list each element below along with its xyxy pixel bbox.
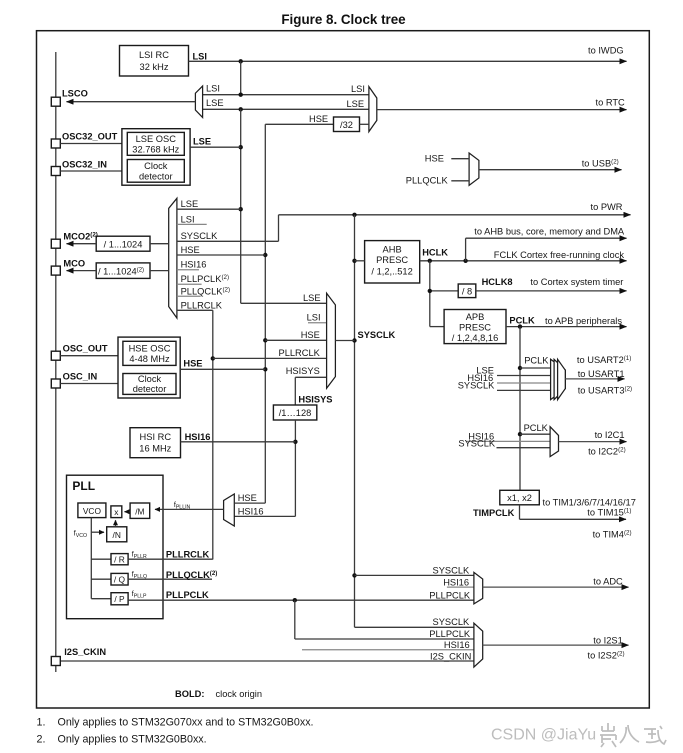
svg-text:HSI16: HSI16 [444,640,470,650]
svg-text:Clock: Clock [138,374,162,384]
divider /1...1024 MCO [96,263,150,279]
svg-text:PLLRCLK: PLLRCLK [279,348,321,358]
svg-text:4-48 MHz: 4-48 MHz [129,354,170,364]
wire MCO-PLLRCLK in [177,309,213,311]
wire HCLK drop [429,261,431,327]
wire LSI row [203,94,369,96]
mux MCO [169,198,177,318]
wire to AHB bus [465,238,467,261]
wire ADC SYSCLK in [355,574,474,576]
svg-text:LSE: LSE [347,99,365,109]
svg-text:to TIM1/3/6/7/14/16/17: to TIM1/3/6/7/14/16/17 [543,497,636,507]
box /M [130,503,150,518]
svg-text:SYSCLK: SYSCLK [458,438,495,448]
mux ADC [474,572,483,604]
pad OSC32_OUT [51,139,60,148]
svg-text:to I2C1: to I2C1 [595,430,625,440]
svg-text:HSISYS: HSISYS [286,366,320,376]
wire HSI16 out [181,441,296,443]
box clock detector (LSE) [127,160,184,183]
svg-text:16 MHz: 16 MHz [139,444,171,454]
wire TIMPCLK [519,505,521,520]
svg-text:/ 8: / 8 [462,286,472,296]
wire to PWR [279,214,631,216]
wire LSI to IWDG [189,60,627,62]
svg-text:OSC_OUT: OSC_OUT [63,344,108,354]
wire MCO-LSI stub [177,223,207,225]
wire MCO-PLLPCLK stub [177,283,202,285]
wire PLLRCLK out [128,558,213,560]
wire /N up to x [115,520,117,527]
svg-text:/ Q: / Q [114,575,126,585]
wire PLLPCLK drop to I2S [294,600,296,639]
svg-text:HSISYS: HSISYS [298,394,332,404]
svg-text:LSI: LSI [193,52,207,62]
wire to RTC [377,109,627,111]
box VCO [78,503,106,518]
pad MCO [51,266,60,275]
svg-text:LSCO: LSCO [62,89,88,99]
svg-text:2.: 2. [37,734,46,746]
svg-text:OSC32_OUT: OSC32_OUT [62,132,118,142]
wire USART PCLK in [520,367,552,369]
svg-text:LSI: LSI [307,312,321,322]
svg-text:PRESC: PRESC [376,255,408,265]
wire USART HSI16 stub [497,382,552,384]
wire to ADC [483,586,629,588]
divider /1...128 [273,405,316,420]
wire LSE row [203,108,369,110]
mux LSCO [195,86,202,117]
svg-text:PLLPCLK: PLLPCLK [429,629,471,639]
svg-text:PLLRCLK: PLLRCLK [166,550,210,560]
svg-text:LSE: LSE [181,199,199,209]
wire SYSCLK rail [354,215,356,628]
svg-text:LSE: LSE [303,293,321,303]
box multiplier x [111,506,122,518]
svg-text:HSE: HSE [238,493,257,503]
box LSE OSC outer [122,129,190,186]
svg-text:1.: 1. [37,717,46,729]
pad I2S_CKIN [51,657,60,666]
svg-text:TIMPCLK: TIMPCLK [473,508,515,518]
wire HSE out [180,368,265,370]
svg-text:to I2S1: to I2S1 [593,635,622,645]
svg-text:SYSCLK: SYSCLK [358,330,396,340]
mux USART (x3 stack) [551,359,566,399]
svg-text:/32: /32 [340,120,353,130]
svg-text:x1, x2: x1, x2 [507,493,532,503]
wire I2S SYSCLK in [355,626,474,628]
wire I2S HSI16 [302,649,474,651]
svg-text:PRESC: PRESC [459,322,491,332]
wire fPLLIN [155,508,224,510]
wire LSCO arrow [67,101,196,103]
mux I2S [474,623,483,667]
multiplier x1,x2 [500,490,540,505]
svg-text:SYSCLK: SYSCLK [433,565,470,575]
svg-text:LSI: LSI [351,84,365,94]
wire PLLQCLK stub [128,578,212,580]
wire HSISYS link [294,420,296,516]
svg-text:SYSCLK: SYSCLK [181,231,218,241]
svg-text:HCLK8: HCLK8 [482,277,513,287]
pad LSCO [51,97,60,106]
mux USB [469,153,479,185]
svg-text:to USART1: to USART1 [578,369,625,379]
svg-text:AHB: AHB [383,245,402,255]
wire PCLK [506,326,627,328]
svg-text:to PWR: to PWR [591,202,623,212]
svg-text:I2S_CKIN: I2S_CKIN [430,652,471,662]
wire MCO-HSE in [177,254,265,256]
svg-text:HCLK: HCLK [422,248,448,258]
box HSE OSC outer [118,337,180,398]
svg-text:HSE: HSE [309,114,328,124]
wire to I2C [559,441,627,443]
svg-text:PCLK: PCLK [524,423,549,433]
wire LSI drop [240,61,242,94]
svg-text:PLLPCLK: PLLPCLK [166,590,209,600]
wire USART SYSCLK stub [497,389,552,391]
junction LSI [239,59,243,63]
svg-text:Only applies to STM32G070xx an: Only applies to STM32G070xx and to STM32… [58,717,314,729]
svg-text:HSE: HSE [181,245,200,255]
pad MCO2 [51,239,60,248]
svg-text:LSI RC: LSI RC [139,50,169,60]
svg-text:CSDN @JiaYu: CSDN @JiaYu [491,727,596,744]
wire MCO-HSI16 stub [177,269,199,271]
svg-text:LSE: LSE [193,137,211,147]
svg-text:/ P: / P [114,594,125,604]
svg-text:/ 1,2,..512: / 1,2,..512 [371,267,412,277]
wire HSE rail [264,124,266,503]
svg-text:detector: detector [133,384,167,394]
wire I2C SYSCLK stub [497,447,551,449]
divider /8 [430,290,458,292]
wire USART LSE stub [497,375,552,377]
svg-text:PCLK: PCLK [509,315,535,325]
svg-text:HSI16: HSI16 [238,507,264,517]
svg-text:HSE: HSE [301,330,320,340]
watermark CJK glyphs [600,723,666,747]
svg-text:OSC32_IN: OSC32_IN [62,159,107,169]
svg-text:to USART2(1): to USART2(1) [577,355,631,365]
wire ADC HSI16 stub [447,586,474,588]
box APB PRESC [444,310,506,344]
svg-text:Clock: Clock [144,161,168,171]
wire MCO-SYSCLK in [177,240,279,242]
box /N [107,527,127,542]
box /P [111,593,128,605]
box LSI RC [120,46,189,77]
mux SYSCLK [327,293,336,388]
left pad rail [55,52,57,672]
box AHB PRESC [365,241,420,283]
svg-text:MCO: MCO [63,258,85,268]
svg-text:LSI: LSI [181,215,195,225]
divider /32 [334,117,360,132]
svg-text:PLLQCLK: PLLQCLK [406,176,449,186]
svg-text:to APB peripherals: to APB peripherals [545,316,622,326]
mux I2C [550,427,558,457]
wire PLLRCLK rail [212,310,214,559]
svg-text:Only applies to STM32G0B0xx.: Only applies to STM32G0B0xx. [58,734,207,746]
wire HSE to /32 [265,123,333,125]
wire to USB [479,169,622,171]
svg-text:SYSCLK: SYSCLK [458,381,495,391]
wire to USART1 [565,378,624,380]
svg-text:/ 1,2,4,8,16: / 1,2,4,8,16 [452,333,499,343]
pad OSC_OUT [51,351,60,360]
svg-text:PCLK: PCLK [524,356,549,366]
svg-text:HSE OSC: HSE OSC [129,343,171,353]
mux SYSCLK inputs [241,302,327,304]
svg-text:PLLQCLK(2): PLLQCLK(2) [166,570,217,580]
svg-text:HSI16: HSI16 [181,260,207,270]
box /R [111,554,128,565]
svg-text:to AHB bus, core, memory and D: to AHB bus, core, memory and DMA [474,227,625,237]
svg-text:/M: /M [135,506,144,516]
wire I2C PCLK in [520,433,550,435]
svg-text:VCO: VCO [83,506,102,516]
svg-text:/N: /N [113,530,121,540]
svg-text:LSI: LSI [206,84,220,94]
box HSI RC [130,428,181,458]
svg-text:to RTC: to RTC [596,98,626,108]
svg-text:to USART3(2): to USART3(2) [578,385,632,395]
mux PLL input [224,494,235,526]
wire PLLPCLK long [128,599,474,601]
wire LSE out [190,146,241,148]
wire I2S_CKIN [60,660,474,662]
wire LSE rail [240,109,242,303]
svg-text:HSE: HSE [425,154,444,164]
wire /M to x [125,511,131,513]
svg-text:PLL: PLL [72,479,95,493]
svg-text:to IWDG: to IWDG [588,46,624,56]
box /Q [111,573,128,585]
pad OSC32_IN [51,167,60,176]
svg-text:APB: APB [466,312,485,322]
wire PCLK rail [519,327,521,491]
mux RTC [369,87,377,132]
svg-text:FCLK Cortex free-running clock: FCLK Cortex free-running clock [494,250,625,260]
svg-text:PLLPCLK: PLLPCLK [429,591,471,601]
svg-text:to Cortex system timer: to Cortex system timer [530,277,623,287]
svg-text:HSE: HSE [183,359,202,369]
svg-text:32 kHz: 32 kHz [140,62,169,72]
divider /1...1024 MCO2 [96,236,150,251]
svg-text:32.768 kHz: 32.768 kHz [132,144,179,154]
svg-text:PLLRCLK: PLLRCLK [181,300,223,310]
svg-text:HSI16: HSI16 [443,577,469,587]
wire I2C HSI16 stub [466,440,550,442]
svg-text:/ R: / R [114,554,125,564]
svg-text:LSE: LSE [206,98,224,108]
wire MCO-PLLQCLK stub [177,295,201,297]
svg-text:detector: detector [139,171,173,181]
svg-text:HSI RC: HSI RC [140,432,172,442]
svg-text:LSE OSC: LSE OSC [136,134,177,144]
svg-text:clock origin: clock origin [216,689,263,699]
wire SYSCLK out [335,340,354,342]
svg-text:/ 1...1024: / 1...1024 [104,240,143,250]
pad OSC_IN [51,379,60,388]
svg-text:OSC_IN: OSC_IN [63,372,98,382]
svg-text:HSI16: HSI16 [185,432,211,442]
wire to I2S [483,644,629,646]
svg-text:to ADC: to ADC [593,576,623,586]
svg-text:BOLD:: BOLD: [175,689,204,699]
box PLL [67,475,164,619]
svg-text:/1…128: /1…128 [279,408,312,418]
svg-text:Figure 8. Clock tree: Figure 8. Clock tree [281,12,405,27]
svg-text:SYSCLK: SYSCLK [433,617,470,627]
box clock detector (HSE) [123,374,176,395]
wire MCO-LSE in [177,208,241,210]
wire fVCO vertical [90,518,92,599]
svg-text:I2S_CKIN: I2S_CKIN [64,647,106,657]
wire PLL-HSE in [234,502,265,504]
